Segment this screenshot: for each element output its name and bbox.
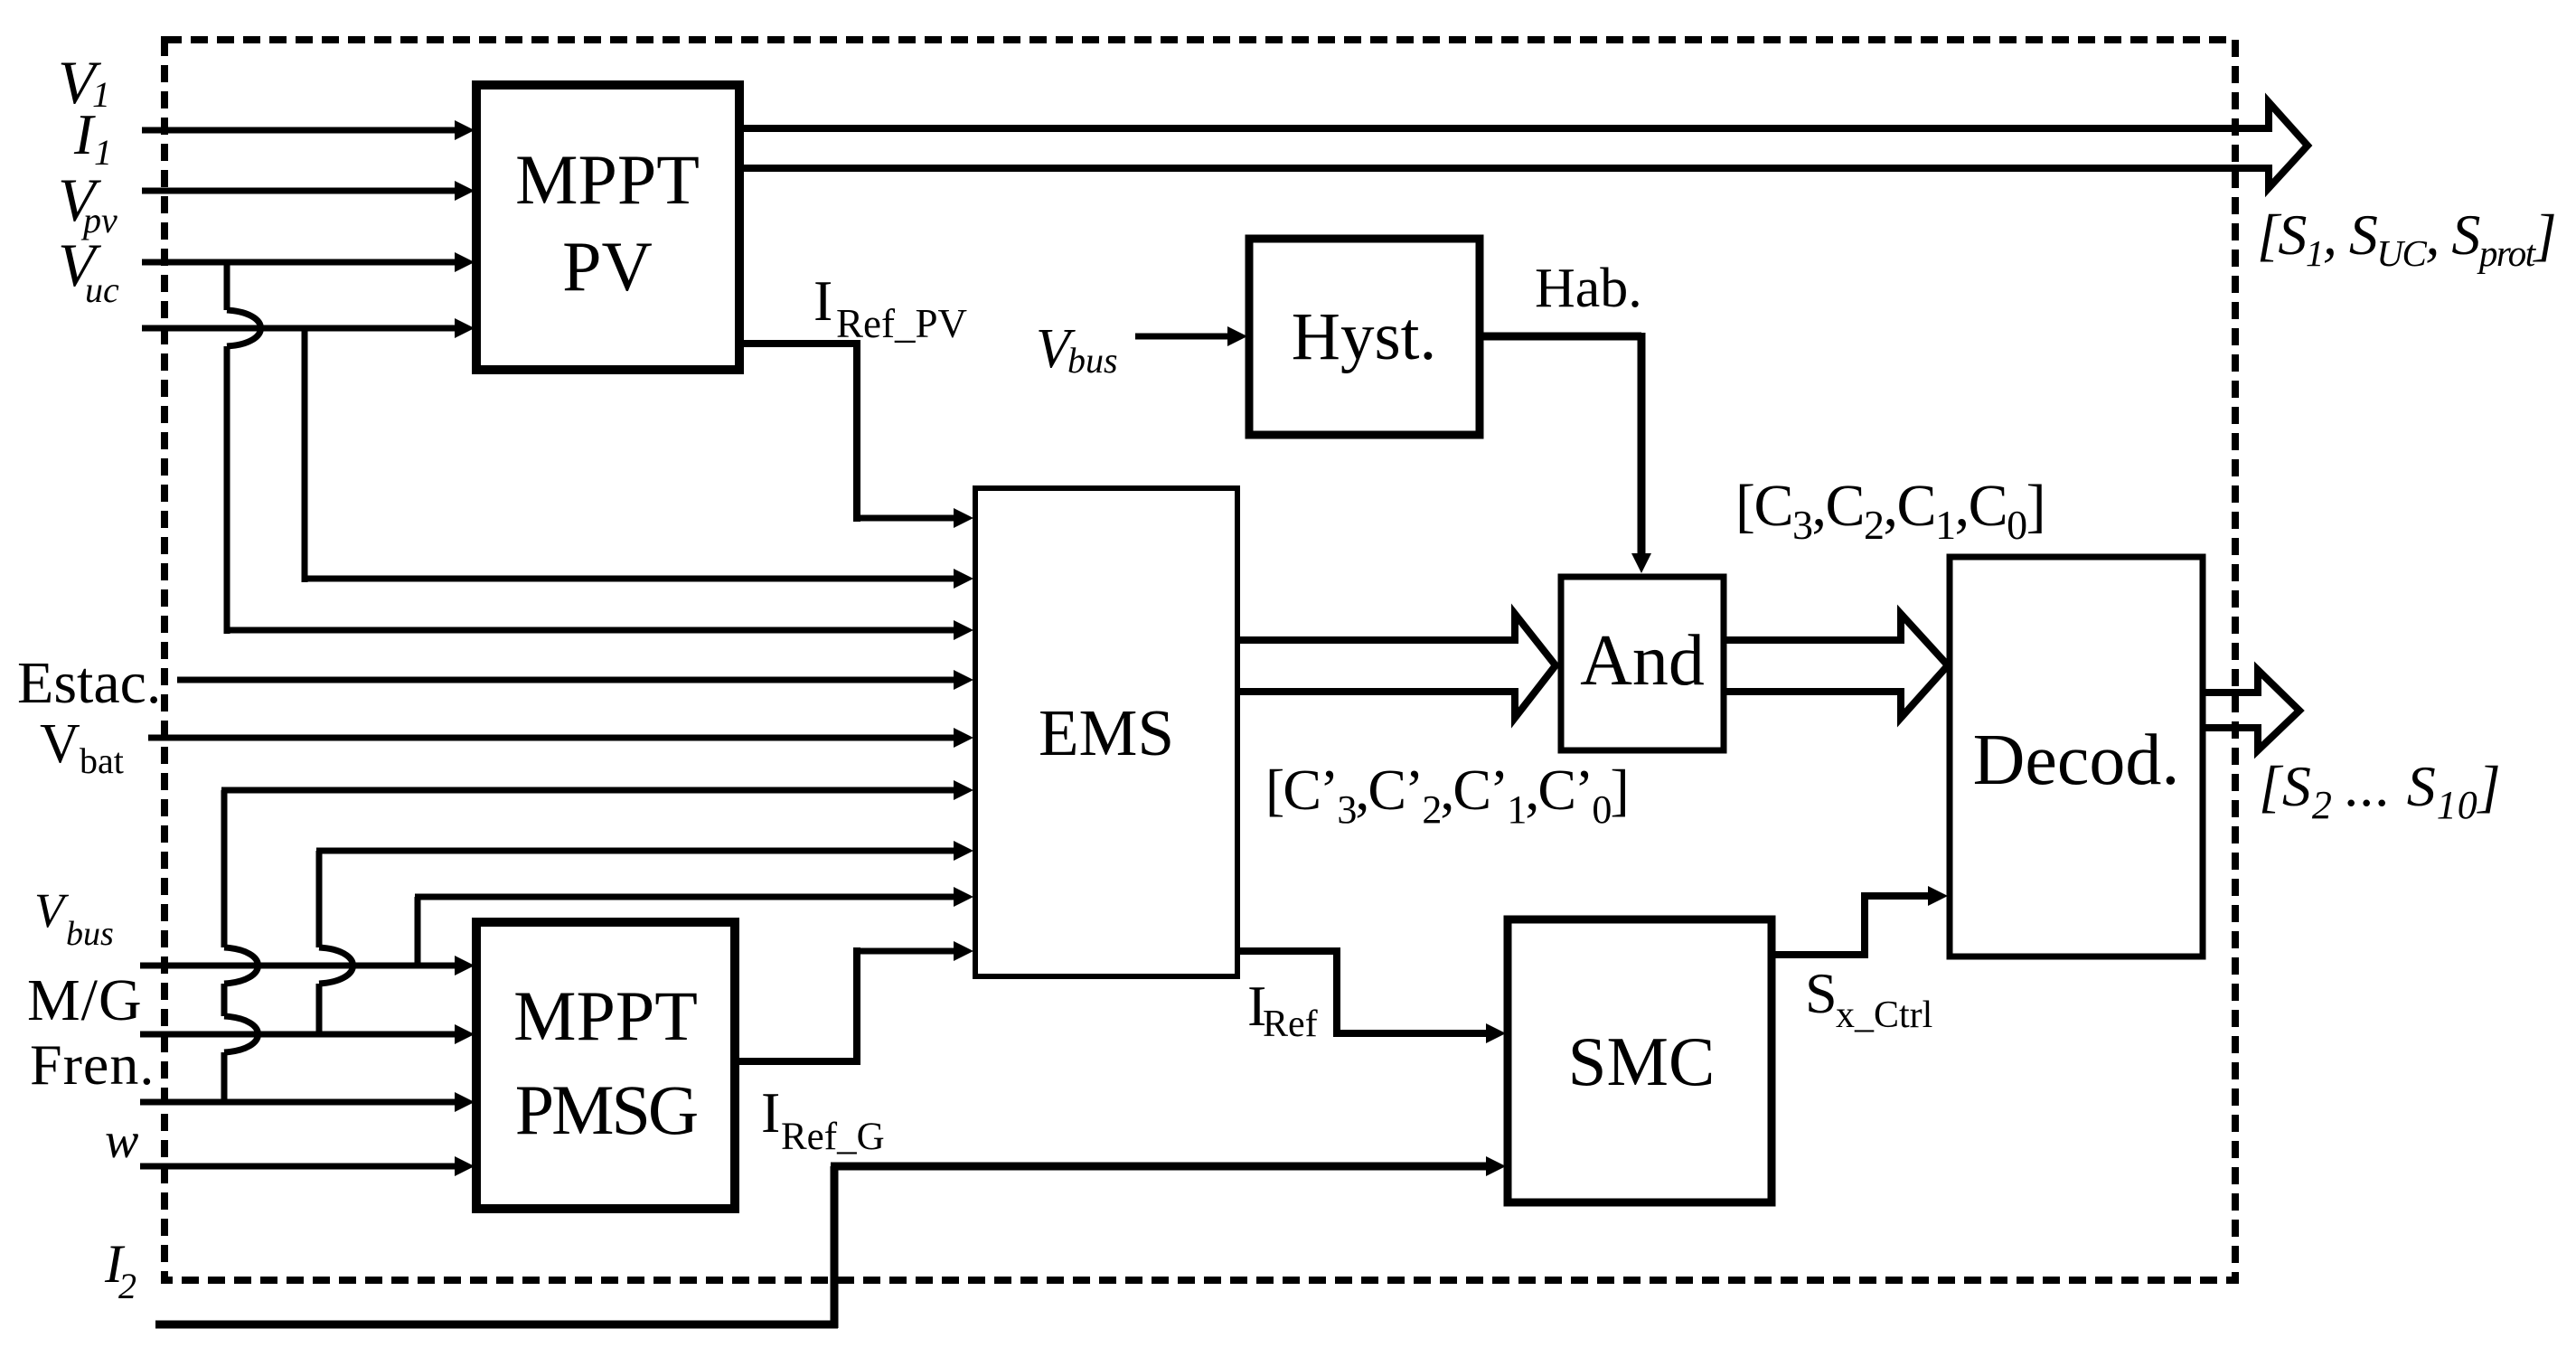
branch of Vbus wire up to EMS input 8: [415, 887, 973, 966]
svg-text:S: S: [1805, 961, 1838, 1025]
svg-text:I: I: [73, 102, 96, 166]
wire I_Ref from EMS to SMC: [1237, 947, 1506, 1043]
wire I_Ref_G from MPPT PMSG to EMS input 9: [735, 941, 973, 1065]
block Decod.: [1950, 557, 2203, 956]
label Vbus left: [34, 883, 114, 953]
svg-text:Ref_PV: Ref_PV: [836, 301, 967, 346]
top output bus to [S1, SUC, Sprot]: [739, 102, 2308, 188]
label I_Ref_G: [761, 1080, 885, 1158]
output bus Decod to [S2 ... S10]: [2203, 670, 2299, 750]
label V1: [58, 48, 110, 117]
label Vpv: [58, 165, 118, 240]
bus And to Decod: [1724, 614, 1948, 718]
svg-text:I: I: [761, 1080, 780, 1145]
wire I1 into MPPT PV: [142, 181, 475, 201]
wire Hab. from Hyst down into And: [1480, 333, 1651, 573]
block MPPT PV: [476, 85, 739, 370]
svg-text:I: I: [813, 269, 832, 333]
block Hyst.: [1249, 239, 1480, 435]
block And: [1561, 577, 1724, 750]
label S_x_Ctrl: [1805, 961, 1932, 1036]
svg-text:[C’3,C’2,C’1,C’0]: [C’3,C’2,C’1,C’0]: [1265, 758, 1628, 832]
svg-text:Fren.: Fren.: [30, 1032, 155, 1097]
svg-text:bat: bat: [80, 740, 124, 781]
block MPPT PMSG: [476, 922, 735, 1209]
wire Vbus into MPPT PMSG: [140, 956, 475, 975]
svg-text:Decod.: Decod.: [1973, 721, 2180, 800]
wire Vuc into MPPT PV: [142, 318, 475, 338]
svg-text:w: w: [105, 1113, 138, 1169]
svg-text:[C3,C2,C1,C0]: [C3,C2,C1,C0]: [1735, 473, 2045, 548]
svg-text:PV: PV: [562, 227, 653, 306]
svg-text:M/G: M/G: [27, 967, 143, 1033]
wire Vpv into MPPT PV: [142, 252, 475, 272]
wire Vbat into EMS input 5: [148, 728, 973, 748]
svg-text:Ref: Ref: [1263, 1004, 1318, 1045]
svg-text:bus: bus: [66, 915, 114, 953]
branch of Vpv wire down to EMS input 3 (with hop over Vuc wire): [224, 262, 973, 640]
wire w into MPPT PMSG: [140, 1156, 475, 1176]
wire V1/I1 into MPPT PV: [142, 120, 475, 140]
wire I2 from bottom into SMC: [155, 1156, 1506, 1328]
dashed system boundary: [165, 40, 2235, 1280]
svg-text:uc: uc: [85, 269, 119, 310]
svg-text:And: And: [1580, 621, 1705, 701]
svg-text:EMS: EMS: [1039, 696, 1174, 769]
wire I_Ref_PV from MPPT PV to EMS input 1: [739, 340, 973, 528]
branch of Fren. wire up to EMS input 6 (hops over M/G and Vbus wires): [221, 780, 973, 1102]
label I2: [104, 1234, 136, 1306]
svg-text:2: 2: [118, 1266, 136, 1306]
svg-text:Hyst.: Hyst.: [1292, 299, 1436, 374]
svg-text:Estac.: Estac.: [17, 650, 161, 716]
svg-text:SMC: SMC: [1568, 1022, 1716, 1100]
branch of Vuc wire down to EMS input 2: [302, 328, 973, 589]
block EMS: [975, 488, 1237, 976]
wire Vbus into Hyst: [1135, 326, 1247, 346]
wire S_x_Ctrl from SMC to Decod: [1772, 886, 1948, 958]
svg-text:1: 1: [94, 132, 112, 173]
svg-text:1: 1: [92, 74, 110, 115]
label Vbat: [40, 713, 124, 781]
svg-text:bus: bus: [1067, 340, 1118, 381]
svg-text:V: V: [40, 713, 80, 775]
label I_Ref_PV: [813, 269, 967, 346]
svg-text:Hab.: Hab.: [1535, 258, 1642, 319]
bus EMS to And: [1237, 614, 1556, 718]
svg-text:MPPT: MPPT: [513, 976, 698, 1055]
wire Estac. into EMS input 4: [177, 670, 973, 690]
svg-text:MPPT: MPPT: [515, 140, 700, 219]
wire Fren. into MPPT PMSG: [140, 1092, 475, 1112]
label Vuc: [58, 231, 119, 310]
label Vbus mid: [1036, 318, 1118, 381]
svg-text:x_Ctrl: x_Ctrl: [1836, 994, 1932, 1036]
label I1: [73, 102, 112, 173]
wire M/G into MPPT PMSG: [140, 1024, 475, 1044]
branch of M/G wire up to EMS input 7 (hops over Vbus wire): [316, 841, 973, 1034]
block SMC: [1508, 919, 1772, 1202]
svg-text:PMSG: PMSG: [515, 1070, 697, 1149]
label I_Ref: [1247, 974, 1318, 1045]
svg-text:Ref_G: Ref_G: [781, 1116, 885, 1158]
